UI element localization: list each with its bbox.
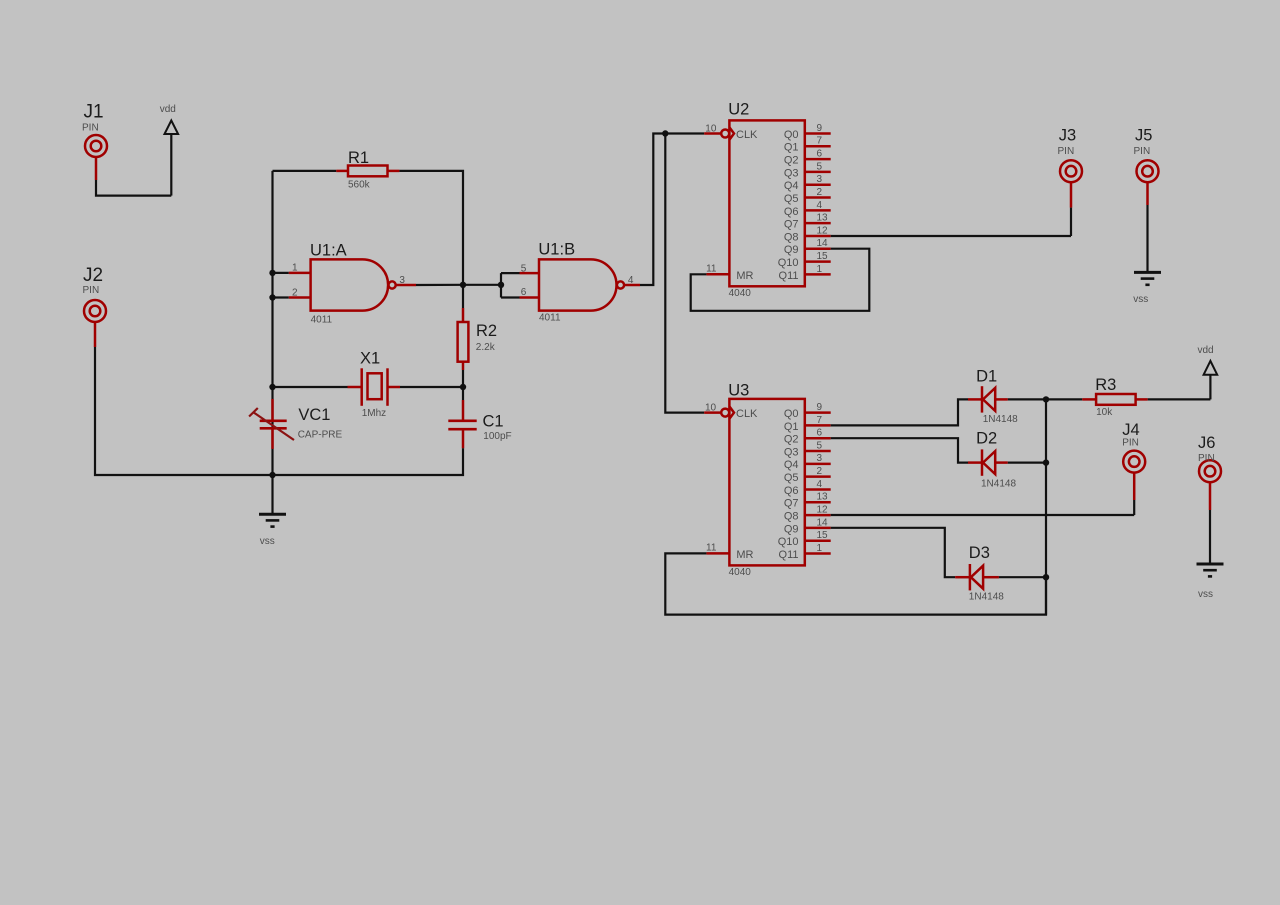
resistor R3 10k <box>1095 376 1135 418</box>
svg-text:CLK: CLK <box>736 129 758 141</box>
junction node gate A out <box>460 282 466 288</box>
svg-text:Q0: Q0 <box>784 408 799 420</box>
svg-text:Q5: Q5 <box>784 193 799 205</box>
svg-text:560k: 560k <box>348 180 371 191</box>
pin lead Q0 (pin 9) <box>805 411 831 414</box>
clock input bubble pin 10 <box>721 409 729 417</box>
svg-text:100pF: 100pF <box>483 431 511 442</box>
svg-text:2: 2 <box>292 288 298 299</box>
wire diode summing vertical <box>1045 399 1047 614</box>
connector J4 <box>1122 421 1145 473</box>
svg-text:vdd: vdd <box>160 104 176 115</box>
pin lead <box>336 170 348 173</box>
wire X1 to C1 node <box>400 386 463 388</box>
wire J4 drop <box>1133 500 1135 515</box>
svg-text:Q10: Q10 <box>778 257 799 269</box>
svg-text:PIN: PIN <box>83 285 100 296</box>
clock input bubble pin 10 <box>721 130 729 138</box>
svg-text:14: 14 <box>817 238 829 249</box>
pin lead <box>983 576 999 579</box>
svg-text:U2: U2 <box>728 101 749 119</box>
pin lead MR U3 <box>706 552 729 555</box>
svg-text:PIN: PIN <box>1198 453 1215 464</box>
resistor R1 560k <box>348 149 388 190</box>
svg-text:13: 13 <box>817 213 829 224</box>
junction clock net <box>662 130 668 136</box>
svg-text:X1: X1 <box>360 349 380 367</box>
pin lead <box>1209 483 1212 510</box>
capacitor C1 100pF <box>448 400 511 448</box>
svg-text:3: 3 <box>817 174 823 185</box>
wire U3 Q9 to D3 <box>831 528 956 577</box>
wire to pin 2 <box>273 296 289 298</box>
svg-text:D1: D1 <box>976 367 997 385</box>
pin lead Q2 (pin 6) <box>805 437 831 440</box>
pin lead Q6 (pin 4) <box>805 209 831 212</box>
diode D1 1N4148 <box>976 367 1018 425</box>
svg-text:11: 11 <box>706 542 717 553</box>
pin lead <box>462 308 465 322</box>
wire U3 MR loop bottom <box>665 553 1046 614</box>
wire to pin 5 <box>501 272 520 274</box>
svg-text:Q0: Q0 <box>784 129 799 141</box>
pin lead <box>95 158 98 181</box>
pin lead <box>1146 183 1149 205</box>
wire D2 to node <box>1008 462 1046 464</box>
svg-text:7: 7 <box>817 136 823 147</box>
IC U2 4040 counter <box>721 101 831 300</box>
svg-text:U3: U3 <box>728 381 749 399</box>
pin lead <box>968 461 982 464</box>
svg-text:J1: J1 <box>84 102 104 123</box>
svg-text:12: 12 <box>817 504 829 515</box>
pin lead <box>289 272 311 275</box>
pin lead Q3 (pin 5) <box>805 450 831 453</box>
svg-text:9: 9 <box>817 123 823 134</box>
svg-text:4011: 4011 <box>539 312 561 323</box>
pin lead Q1 (pin 7) <box>805 145 831 148</box>
pin lead MR U2 <box>706 273 729 276</box>
clock wedge <box>729 406 734 418</box>
pin lead Q0 (pin 9) <box>805 132 831 135</box>
wire input tie <box>500 273 502 297</box>
svg-text:Q1: Q1 <box>784 421 799 433</box>
wire R1 to gate output node <box>399 171 463 285</box>
power vdd symbol <box>160 104 178 196</box>
connector J3 <box>1058 126 1083 182</box>
svg-text:Q5: Q5 <box>784 472 799 484</box>
wire J1 to vdd <box>96 180 171 196</box>
wire R2 to crystal node <box>462 370 464 387</box>
wire to U1:B inputs <box>463 284 501 286</box>
NAND gate U1:A <box>310 242 396 326</box>
pin lead <box>1133 473 1136 500</box>
svg-text:5: 5 <box>521 264 527 275</box>
output bubble <box>617 281 624 288</box>
svg-text:CAP-PRE: CAP-PRE <box>298 430 343 441</box>
junction bottom net <box>269 472 275 478</box>
pin lead clock U2 <box>704 132 721 135</box>
wire node to R3 <box>1046 398 1082 400</box>
svg-text:PIN: PIN <box>1058 146 1075 157</box>
svg-text:2.2k: 2.2k <box>476 342 496 353</box>
crystal X1 1Mhz <box>348 349 401 419</box>
svg-text:R2: R2 <box>476 322 497 340</box>
svg-text:Q7: Q7 <box>784 498 799 510</box>
svg-text:PIN: PIN <box>82 123 99 134</box>
pin lead clock U3 <box>704 411 721 414</box>
svg-text:6: 6 <box>817 149 823 160</box>
svg-text:PIN: PIN <box>1122 437 1139 448</box>
pin lead Q11 (pin 1) <box>805 552 831 555</box>
svg-text:Q1: Q1 <box>784 142 799 154</box>
junction D2 node <box>1043 459 1049 465</box>
pin lead output 4 <box>625 284 641 287</box>
svg-text:4: 4 <box>817 479 823 490</box>
svg-text:C1: C1 <box>483 413 504 431</box>
junction <box>269 294 275 300</box>
pin lead <box>995 398 1008 401</box>
trimmer capacitor VC1 CAP-PRE <box>249 399 342 449</box>
pin lead Q10 (pin 15) <box>805 260 831 263</box>
wire U2 Q8 to J3 <box>831 235 1071 237</box>
svg-text:3: 3 <box>817 453 823 464</box>
svg-text:1N4148: 1N4148 <box>981 479 1016 490</box>
svg-text:4: 4 <box>817 200 823 211</box>
wire R3 to vdd <box>1148 398 1211 400</box>
wire to pin 6 <box>501 296 520 298</box>
resistor R2 2.2k <box>458 322 497 362</box>
svg-text:1: 1 <box>817 264 823 275</box>
svg-text:11: 11 <box>706 263 717 274</box>
svg-text:Q8: Q8 <box>784 510 799 522</box>
svg-text:VC1: VC1 <box>298 406 330 424</box>
pin lead <box>1082 398 1096 401</box>
connector J6 <box>1198 434 1221 482</box>
wire D1 to node <box>1008 398 1046 400</box>
wire D3 to node <box>999 576 1046 578</box>
svg-text:J5: J5 <box>1135 126 1152 144</box>
svg-text:D2: D2 <box>976 430 997 448</box>
wire net left vertical <box>271 171 273 475</box>
wire gate A out <box>416 284 463 286</box>
wire U3 Q1 to D1 <box>831 399 968 425</box>
pin lead Q5 (pin 2) <box>805 196 831 199</box>
svg-text:15: 15 <box>817 251 829 262</box>
svg-text:Q9: Q9 <box>784 244 799 256</box>
pin lead Q5 (pin 2) <box>805 475 831 478</box>
wire U2 MR to Q9 <box>691 249 870 311</box>
svg-text:2: 2 <box>817 187 823 198</box>
svg-text:Q7: Q7 <box>784 219 799 231</box>
connector J2 <box>83 265 107 322</box>
ground vss symbol <box>1133 205 1161 305</box>
clock wedge <box>729 127 734 139</box>
IC U3 4040 counter <box>721 381 831 578</box>
svg-text:Q6: Q6 <box>784 485 799 497</box>
pin lead Q11 (pin 1) <box>805 273 831 276</box>
pin lead <box>520 272 540 275</box>
pin lead <box>462 362 465 370</box>
NAND gate U1:B <box>538 240 624 323</box>
svg-text:5: 5 <box>817 440 823 451</box>
svg-text:MR: MR <box>736 270 753 282</box>
wire to X1 <box>273 386 348 388</box>
svg-text:1N4148: 1N4148 <box>983 414 1018 425</box>
junction D1 node <box>1043 396 1049 402</box>
svg-text:Q6: Q6 <box>784 206 799 218</box>
svg-text:PIN: PIN <box>1134 146 1151 157</box>
pin lead Q7 (pin 13) <box>805 501 831 504</box>
svg-text:2: 2 <box>817 466 823 477</box>
junction crystal net right <box>460 384 466 390</box>
svg-text:Q4: Q4 <box>784 180 799 192</box>
svg-text:R1: R1 <box>348 149 369 167</box>
pin lead Q9 (pin 14) <box>805 527 831 530</box>
wire U3 Q2 to D2 <box>831 438 968 462</box>
pin lead Q9 (pin 14) <box>805 248 831 251</box>
wire to C1 <box>462 387 464 400</box>
svg-text:Q10: Q10 <box>778 536 799 548</box>
svg-text:Q2: Q2 <box>784 434 799 446</box>
svg-text:6: 6 <box>521 287 527 298</box>
pin lead <box>1136 398 1148 401</box>
pin lead output 3 <box>396 284 416 287</box>
svg-text:4040: 4040 <box>729 288 752 299</box>
svg-text:Q3: Q3 <box>784 167 799 179</box>
svg-text:U1:B: U1:B <box>538 240 575 258</box>
svg-text:J4: J4 <box>1122 421 1139 439</box>
pin lead Q4 (pin 3) <box>805 183 831 186</box>
junction U1:B input node <box>498 282 504 288</box>
junction D3 node <box>1043 574 1049 580</box>
svg-text:vss: vss <box>1198 589 1213 600</box>
svg-text:Q2: Q2 <box>784 155 799 167</box>
svg-text:5: 5 <box>817 161 823 172</box>
svg-text:7: 7 <box>817 415 823 426</box>
pin lead Q2 (pin 6) <box>805 158 831 161</box>
svg-text:4040: 4040 <box>729 567 752 578</box>
wire to R2 <box>462 285 464 308</box>
svg-text:U1:A: U1:A <box>310 242 347 260</box>
wire to pin 1 <box>273 272 289 274</box>
connector J5 <box>1134 126 1159 182</box>
pin lead <box>995 461 1008 464</box>
pin lead Q1 (pin 7) <box>805 424 831 427</box>
junction crystal net left <box>269 384 275 390</box>
svg-text:1Mhz: 1Mhz <box>362 408 386 419</box>
pin lead <box>289 296 311 299</box>
wire clock to U2 <box>640 134 704 286</box>
wire to R1 <box>273 170 337 172</box>
pin lead Q10 (pin 15) <box>805 539 831 542</box>
svg-text:CLK: CLK <box>736 408 758 420</box>
svg-text:13: 13 <box>817 492 829 503</box>
diode D2 1N4148 <box>976 430 1016 490</box>
pin lead <box>94 323 97 348</box>
svg-text:D3: D3 <box>969 544 990 562</box>
svg-text:J3: J3 <box>1059 126 1076 144</box>
pin lead Q7 (pin 13) <box>805 222 831 225</box>
svg-text:Q4: Q4 <box>784 459 799 471</box>
pin lead <box>520 296 540 299</box>
svg-text:1N4148: 1N4148 <box>969 592 1004 603</box>
svg-text:4011: 4011 <box>311 315 333 326</box>
pin lead <box>1070 183 1073 208</box>
pin lead <box>968 398 982 401</box>
svg-text:Q3: Q3 <box>784 446 799 458</box>
svg-text:R3: R3 <box>1095 376 1116 394</box>
svg-text:12: 12 <box>817 225 829 236</box>
pin lead <box>955 576 970 579</box>
svg-text:J6: J6 <box>1198 434 1215 452</box>
svg-text:MR: MR <box>736 549 753 561</box>
connector J1 <box>82 102 107 158</box>
wire J2 to vss net <box>95 347 273 475</box>
svg-text:1: 1 <box>817 543 823 554</box>
svg-text:vss: vss <box>1133 294 1148 305</box>
wire C1 to bottom net <box>273 448 464 475</box>
svg-text:1: 1 <box>292 263 298 274</box>
ground vss symbol <box>1197 510 1224 600</box>
svg-text:14: 14 <box>817 517 829 528</box>
ground vss symbol <box>259 475 286 547</box>
svg-text:Q8: Q8 <box>784 231 799 243</box>
svg-text:Q11: Q11 <box>779 549 799 561</box>
svg-text:6: 6 <box>817 428 823 439</box>
wire clock to U3 <box>665 134 704 413</box>
svg-text:J2: J2 <box>83 265 103 286</box>
svg-text:vdd: vdd <box>1198 345 1214 356</box>
pin lead Q4 (pin 3) <box>805 463 831 466</box>
pin lead Q6 (pin 4) <box>805 488 831 491</box>
svg-text:Q11: Q11 <box>779 270 799 282</box>
svg-text:vss: vss <box>260 536 275 547</box>
power vdd symbol <box>1198 345 1218 399</box>
svg-text:9: 9 <box>817 402 823 413</box>
svg-text:15: 15 <box>817 530 829 541</box>
pin lead Q8 (pin 12) <box>805 235 831 238</box>
pin lead <box>388 170 400 173</box>
diode D3 1N4148 <box>969 544 1004 603</box>
pin lead Q8 (pin 12) <box>805 514 831 517</box>
wire J3 drop <box>1070 208 1072 236</box>
svg-text:10k: 10k <box>1096 407 1113 418</box>
svg-text:Q9: Q9 <box>784 523 799 535</box>
wire U3 Q8 to J4 <box>831 514 1134 516</box>
pin lead Q3 (pin 5) <box>805 171 831 174</box>
output bubble <box>389 281 396 288</box>
junction <box>269 270 275 276</box>
